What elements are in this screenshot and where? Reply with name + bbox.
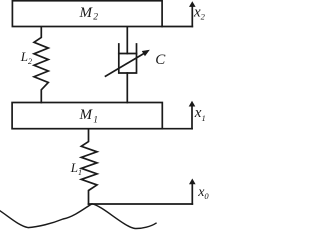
- spring L2: [34, 27, 48, 103]
- spring L1: [81, 130, 97, 205]
- svg-text:M2: M2: [79, 5, 99, 23]
- axis x0 baseline: [89, 203, 193, 205]
- svg-text:L2: L2: [20, 49, 32, 66]
- axis x1: [191, 106, 193, 129]
- svg-text:x1: x1: [194, 105, 206, 123]
- ground wave: [0, 204, 156, 229]
- damper rod bottom: [126, 73, 128, 103]
- mass M2: [12, 1, 162, 27]
- damper rod top: [126, 27, 128, 54]
- svg-text:C: C: [155, 52, 166, 68]
- svg-text:x2: x2: [193, 5, 206, 22]
- wire: M2 bottom edge extension to x2 axis: [162, 26, 192, 28]
- svg-text:M1: M1: [79, 107, 98, 125]
- mass M1: [12, 103, 162, 129]
- axis x2: [191, 7, 193, 27]
- variable damper arrow: [106, 53, 145, 76]
- svg-text:x0: x0: [197, 185, 209, 201]
- wire: M1 bottom edge extension to x1 axis: [162, 128, 192, 130]
- axis x0: [191, 184, 193, 204]
- damper piston: [119, 53, 137, 55]
- svg-text:L1: L1: [70, 160, 82, 177]
- damper cylinder C: [119, 44, 137, 73]
